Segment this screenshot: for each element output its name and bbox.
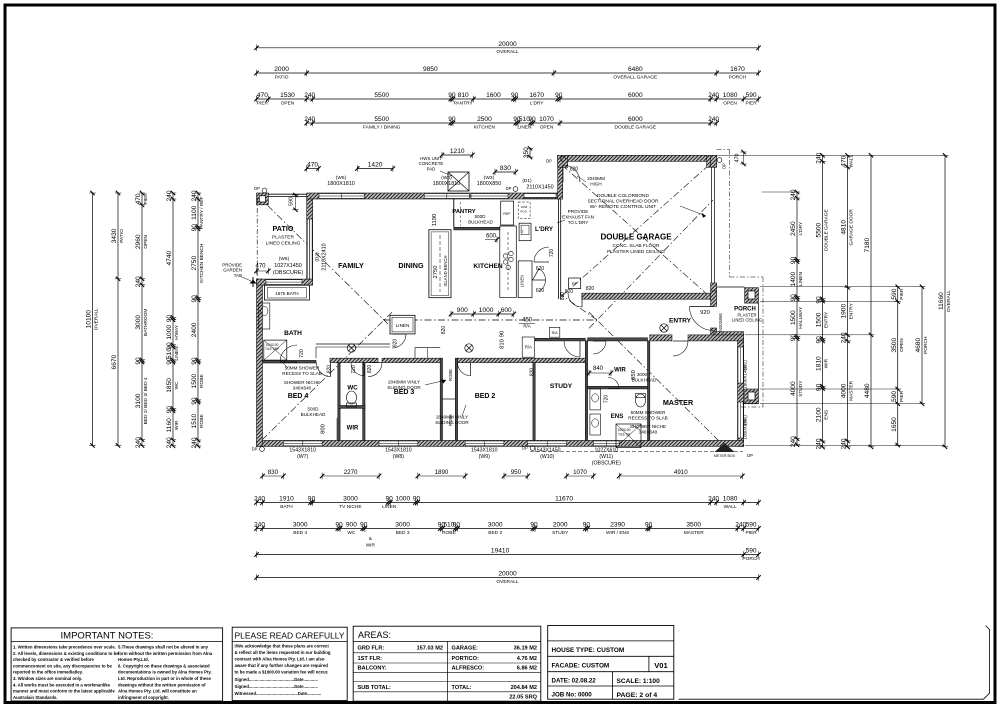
svg-text:KITCHEN: KITCHEN xyxy=(473,263,503,270)
svg-text:90: 90 xyxy=(191,295,198,303)
svg-text:ENTRY: ENTRY xyxy=(824,311,830,328)
svg-text:REF: REF xyxy=(503,212,511,216)
svg-text:BULKHEAD: BULKHEAD xyxy=(632,378,657,383)
svg-text:240: 240 xyxy=(166,190,173,201)
right dim porch piers xyxy=(897,287,899,445)
top dim chain pier/open detail xyxy=(257,98,759,100)
main top wall family-kitchen xyxy=(307,193,560,199)
patio top-left pier xyxy=(257,193,269,205)
top dim chain overall 20000 xyxy=(257,47,759,49)
svg-text:6000: 6000 xyxy=(628,92,643,99)
svg-text:1. Written dimensions take pre: 1. Written dimensions take precedence ov… xyxy=(13,645,116,650)
svg-text:ENTRY: ENTRY xyxy=(849,302,855,319)
svg-text:240: 240 xyxy=(135,276,142,287)
svg-text:3430: 3430 xyxy=(111,228,118,243)
left dim kitchen bench/robes xyxy=(197,193,199,446)
svg-text:WIR: WIR xyxy=(347,426,359,432)
svg-text:5.These drawings shall not be: 5.These drawings shall not be altered in… xyxy=(118,645,209,650)
porch bottom-right pier xyxy=(745,389,759,404)
svg-text:(W7): (W7) xyxy=(297,454,309,460)
svg-text:BED 2: BED 2 xyxy=(488,530,502,536)
svg-text:2000: 2000 xyxy=(274,66,289,73)
svg-text:(D2): (D2) xyxy=(315,252,321,262)
wir north wall xyxy=(588,338,648,341)
svg-text:1810: 1810 xyxy=(816,356,823,371)
svg-text:HALLWAY: HALLWAY xyxy=(798,306,804,329)
svg-text:830: 830 xyxy=(500,165,511,172)
svg-text:ISLAND BENCH: ISLAND BENCH xyxy=(443,256,448,287)
svg-text:BED 2/ BED 3/ BED 4: BED 2/ BED 3/ BED 4 xyxy=(143,377,149,424)
svg-text:90: 90 xyxy=(135,357,142,365)
svg-text:2750: 2750 xyxy=(433,266,439,279)
svg-text:R/A: R/A xyxy=(525,345,532,350)
laundry tub xyxy=(519,223,531,241)
ldry door arc xyxy=(534,247,549,262)
ra box hallway xyxy=(522,337,534,357)
svg-text:MASTER: MASTER xyxy=(663,398,694,407)
svg-text:90: 90 xyxy=(360,522,368,529)
hall closet east of linen xyxy=(415,347,440,349)
svg-text:ENS: ENS xyxy=(824,410,830,420)
svg-text:2110X1450: 2110X1450 xyxy=(526,185,553,191)
svg-text:DP: DP xyxy=(722,163,727,169)
bottom dim overall 20000 xyxy=(257,577,759,579)
svg-text:1543X1810: 1543X1810 xyxy=(471,448,498,454)
svg-text:EXHAUST FAN: EXHAUST FAN xyxy=(562,215,594,220)
svg-text:1ST FLR:: 1ST FLR: xyxy=(358,656,383,662)
svg-text:11660: 11660 xyxy=(938,292,945,310)
svg-text:BED 4: BED 4 xyxy=(293,530,307,536)
svg-text:FACADE: CUSTOM: FACADE: CUSTOM xyxy=(552,663,610,670)
svg-text:3000: 3000 xyxy=(343,496,358,503)
bath vanity xyxy=(259,303,270,329)
svg-text:PLASTER LINED CEILING: PLASTER LINED CEILING xyxy=(607,249,665,255)
svg-text:OPEN: OPEN xyxy=(540,124,554,130)
svg-text:ROBE: ROBE xyxy=(442,530,456,536)
svg-text:LINEN: LINEN xyxy=(798,272,804,287)
svg-text:1530: 1530 xyxy=(280,92,295,99)
window W4 xyxy=(424,194,469,199)
svg-text:PANTRY: PANTRY xyxy=(452,209,475,215)
svg-text:PAGE: 2 of 4: PAGE: 2 of 4 xyxy=(617,692,658,699)
svg-text:90: 90 xyxy=(453,522,461,529)
svg-text:90: 90 xyxy=(386,496,394,503)
svg-text:WALL: WALL xyxy=(849,154,855,167)
svg-text:3500: 3500 xyxy=(686,522,701,529)
entry door arc xyxy=(690,307,714,331)
stamp box bottom right xyxy=(679,626,990,700)
svg-text:820: 820 xyxy=(530,368,536,377)
svg-text:PORTICO:: PORTICO: xyxy=(452,656,479,662)
garage top wall xyxy=(558,155,717,161)
svg-text:documentations is owned by Aln: documentations is owned by Alna Homes Pt… xyxy=(118,670,212,675)
patio left dashed edge xyxy=(256,198,258,283)
left wall xyxy=(257,279,263,446)
svg-text:TAP: TAP xyxy=(234,273,242,278)
svg-text:Australain Standards.: Australain Standards. xyxy=(13,695,57,700)
svg-text:2960: 2960 xyxy=(135,234,142,249)
svg-text:DP: DP xyxy=(747,453,753,458)
svg-text:1800X850: 1800X850 xyxy=(477,181,502,187)
bath door arc xyxy=(280,345,297,362)
svg-text:2750: 2750 xyxy=(191,256,198,271)
svg-text:90: 90 xyxy=(166,315,173,323)
dim 470 patio line xyxy=(257,270,269,272)
svg-text:470: 470 xyxy=(135,193,142,204)
bottom wall xyxy=(257,440,744,446)
svg-text:90: 90 xyxy=(308,496,316,503)
master door arc xyxy=(673,341,688,356)
svg-text:2110X2410: 2110X2410 xyxy=(322,243,328,270)
svg-text:6000: 6000 xyxy=(628,116,643,123)
svg-text:METER BOX: METER BOX xyxy=(714,454,736,458)
bed2/study wall xyxy=(533,363,535,441)
left dim overall 10100 xyxy=(92,193,94,446)
garage right wall with sectional door xyxy=(711,155,717,167)
svg-text:Alna Homes Pty. Ltd. will cons: Alna Homes Pty. Ltd. will constitute an xyxy=(118,689,197,694)
wc east wall xyxy=(363,363,365,441)
svg-text:SUB TOTAL:: SUB TOTAL: xyxy=(358,685,391,691)
svg-text:240: 240 xyxy=(841,438,848,449)
robe divider xyxy=(443,398,456,400)
svg-text:240: 240 xyxy=(304,116,315,123)
top dim chain rooms xyxy=(307,122,717,124)
svg-text:LINEN: LINEN xyxy=(517,124,532,130)
svg-text:WC: WC xyxy=(174,381,180,390)
svg-text:4.76 M2: 4.76 M2 xyxy=(517,656,537,662)
window W1 master xyxy=(738,402,743,438)
svg-text:ENTRY: ENTRY xyxy=(669,318,692,325)
svg-text:500D: 500D xyxy=(308,407,320,412)
svg-text:L'DRY: L'DRY xyxy=(798,221,804,235)
svg-text:TO L'DRY: TO L'DRY xyxy=(568,220,589,225)
svg-text:90: 90 xyxy=(816,336,823,344)
svg-text:2400: 2400 xyxy=(191,322,198,337)
svg-text:5500: 5500 xyxy=(374,116,389,123)
svg-text:LINEN: LINEN xyxy=(382,504,397,510)
svg-text:ENS: ENS xyxy=(611,413,624,420)
extension line garage top to right dims xyxy=(717,154,945,156)
svg-text:830: 830 xyxy=(268,469,279,476)
window W5 xyxy=(319,194,364,199)
bath tub xyxy=(264,285,309,300)
svg-text:500D: 500D xyxy=(475,214,487,219)
svg-text:DP: DP xyxy=(506,186,512,191)
svg-text:720: 720 xyxy=(299,349,305,358)
svg-text:(OBSCURE): (OBSCURE) xyxy=(592,461,621,467)
svg-text:3000: 3000 xyxy=(637,372,648,377)
svg-text:36.19 M2: 36.19 M2 xyxy=(514,646,537,652)
svg-text:340X640: 340X640 xyxy=(639,430,658,435)
svg-text:JOB No: 0000: JOB No: 0000 xyxy=(552,692,593,699)
svg-text:820: 820 xyxy=(393,339,399,348)
family west wall xyxy=(307,199,313,279)
svg-text:800: 800 xyxy=(321,424,327,434)
bath south wall xyxy=(263,360,317,363)
hws pad xyxy=(448,172,469,191)
svg-text:OPEN: OPEN xyxy=(281,100,295,106)
svg-text:DP: DP xyxy=(522,446,528,451)
tv niche xyxy=(316,346,390,348)
svg-text:(W10): (W10) xyxy=(540,454,554,460)
svg-text:1800X850: 1800X850 xyxy=(743,418,748,439)
svg-text:6. Copyright on these drawings: 6. Copyright on these drawings & associa… xyxy=(118,663,210,668)
svg-text:810: 810 xyxy=(458,92,469,99)
svg-text:90: 90 xyxy=(166,406,173,414)
window W11 xyxy=(593,441,619,446)
svg-text:600: 600 xyxy=(486,234,497,240)
svg-text:LINED CEILING: LINED CEILING xyxy=(732,318,762,323)
svg-text:1543X1810: 1543X1810 xyxy=(289,448,316,454)
svg-text:R/A: R/A xyxy=(552,331,559,335)
door D2 opening in family west wall xyxy=(307,219,312,279)
extension 7180 break xyxy=(745,334,871,336)
svg-text:240: 240 xyxy=(708,92,719,99)
hallway north niche wall xyxy=(316,343,390,345)
extension line main top right xyxy=(762,191,797,193)
svg-text:590: 590 xyxy=(289,197,295,206)
svg-text:1510: 1510 xyxy=(191,413,198,428)
svg-text:1800X1450: 1800X1450 xyxy=(743,365,748,389)
beds north wall xyxy=(330,358,378,362)
east wall entry section xyxy=(711,291,717,306)
svg-text:V01: V01 xyxy=(654,661,668,670)
meter box xyxy=(715,443,735,452)
smoke detector hallway west xyxy=(347,344,355,352)
svg-text:19410: 19410 xyxy=(491,548,510,555)
svg-text:590: 590 xyxy=(746,92,757,99)
roof hip patio corner xyxy=(258,196,392,328)
svg-text:1000: 1000 xyxy=(479,307,494,314)
svg-text:checked by contractor & verifi: checked by contractor & verified before xyxy=(13,657,95,662)
cooktop xyxy=(503,254,507,258)
svg-text:PROVIDE: PROVIDE xyxy=(568,209,589,214)
svg-text:20000: 20000 xyxy=(498,41,517,48)
svg-text:470: 470 xyxy=(257,92,268,99)
areas box xyxy=(353,626,541,701)
svg-text:4680: 4680 xyxy=(915,338,922,353)
svg-text:90: 90 xyxy=(191,397,198,405)
wc door arc xyxy=(351,363,364,376)
svg-text:100X100: 100X100 xyxy=(618,428,631,432)
svg-text:90: 90 xyxy=(500,331,506,337)
right dim 7180/4480 xyxy=(870,155,872,447)
svg-text:Signed........................: Signed..................................… xyxy=(235,677,318,682)
svg-text:(OBSCURE): (OBSCURE) xyxy=(273,270,303,276)
window W9 xyxy=(465,441,504,446)
svg-text:WIR: WIR xyxy=(614,368,626,374)
svg-text:MASTER: MASTER xyxy=(849,380,855,401)
svg-text:240: 240 xyxy=(841,332,848,343)
svg-text:620: 620 xyxy=(536,288,545,294)
svg-text:POS.: POS. xyxy=(520,210,527,214)
important notes box xyxy=(11,628,223,701)
svg-text:PIER: PIER xyxy=(745,530,757,536)
svg-text:90: 90 xyxy=(790,294,797,302)
window W8 xyxy=(379,441,418,446)
svg-text:3100: 3100 xyxy=(135,393,142,408)
extension bottom right xyxy=(745,445,945,447)
svg-text:6670: 6670 xyxy=(111,354,118,369)
svg-text:reported to the office immedia: reported to the office immediatley. xyxy=(13,670,83,675)
svg-text:KITCHEN: KITCHEN xyxy=(474,124,496,130)
svg-text:240: 240 xyxy=(191,190,198,201)
svg-text:GARAGE:: GARAGE: xyxy=(452,646,479,652)
svg-text:WC: WC xyxy=(347,530,356,536)
svg-text:2270: 2270 xyxy=(344,469,358,476)
svg-text:DOUBLE GARAGE: DOUBLE GARAGE xyxy=(615,124,657,130)
svg-text:1070: 1070 xyxy=(573,469,587,476)
bottom dim chain rooms xyxy=(257,528,759,530)
window W7 xyxy=(283,441,322,446)
svg-text:90: 90 xyxy=(645,522,653,529)
svg-text:1600: 1600 xyxy=(486,92,501,99)
roof hip to top-right xyxy=(589,200,713,328)
svg-text:1543X1450: 1543X1450 xyxy=(534,448,561,454)
svg-text:2040MM: 2040MM xyxy=(587,176,605,181)
svg-text:(W9): (W9) xyxy=(479,454,491,460)
roof hip bottom-left xyxy=(262,312,392,440)
svg-text:W/- REMOTE CONTROL UNIT: W/- REMOTE CONTROL UNIT xyxy=(590,204,657,210)
svg-text:860: 860 xyxy=(560,292,566,301)
svg-text:240: 240 xyxy=(166,437,173,448)
svg-text:820: 820 xyxy=(367,365,373,374)
svg-text:PANTRY: PANTRY xyxy=(454,100,474,106)
svg-text:240: 240 xyxy=(708,496,719,503)
rf nook garage xyxy=(569,278,581,289)
svg-text:aware that if any further chan: aware that if any further changes are re… xyxy=(235,663,329,668)
right dim 4680 porch xyxy=(921,287,923,404)
svg-text:HOUSE TYPE: CUSTOM: HOUSE TYPE: CUSTOM xyxy=(552,647,625,654)
svg-text:90: 90 xyxy=(448,116,456,123)
svg-text:1675 BATH: 1675 BATH xyxy=(275,291,298,296)
svg-text:90: 90 xyxy=(448,92,456,99)
svg-text:90: 90 xyxy=(528,116,536,123)
svg-text:1500: 1500 xyxy=(191,373,198,388)
svg-text:RF: RF xyxy=(572,282,578,286)
svg-text:Witnessed.....................: Witnessed...............................… xyxy=(235,691,322,696)
svg-text:SHOWER NICHE: SHOWER NICHE xyxy=(630,424,666,429)
porch top-right pier xyxy=(745,288,759,303)
svg-text:90: 90 xyxy=(816,383,823,391)
svg-text:4810: 4810 xyxy=(841,220,848,235)
svg-text:GARAGE DOOR: GARAGE DOOR xyxy=(849,209,855,246)
svg-text:BULKHEAD: BULKHEAD xyxy=(301,412,326,417)
svg-text:SHOWER NICHE: SHOWER NICHE xyxy=(284,380,320,385)
svg-text:BATHROOM: BATHROOM xyxy=(143,309,149,336)
svg-text:1910: 1910 xyxy=(279,496,294,503)
svg-text:820: 820 xyxy=(570,167,579,173)
svg-text:2390: 2390 xyxy=(610,522,625,529)
smoke detector hallway mid xyxy=(465,344,473,352)
wc toilet xyxy=(347,391,357,404)
garage west wall upper xyxy=(558,155,563,199)
svg-text:157.03 M2: 157.03 M2 xyxy=(417,646,443,652)
svg-text:1670: 1670 xyxy=(730,66,745,73)
bath shower xyxy=(264,340,287,360)
svg-text:470: 470 xyxy=(307,162,318,169)
svg-text:& reflect all the items reques: & reflect all the items requested in our… xyxy=(235,650,331,655)
svg-text:SECTIONAL OVERHEAD DOOR: SECTIONAL OVERHEAD DOOR xyxy=(588,199,660,205)
svg-text:90: 90 xyxy=(790,257,797,265)
svg-text:FAMILY: FAMILY xyxy=(338,261,364,270)
roof ridge xyxy=(384,319,597,321)
svg-text:6480: 6480 xyxy=(628,66,643,73)
svg-text:CONC. SLAB FLOOR: CONC. SLAB FLOOR xyxy=(613,243,660,249)
top dim chain 2000/9850/6480/1670 xyxy=(257,72,759,74)
svg-text:1210: 1210 xyxy=(450,148,465,155)
svg-text:1160: 1160 xyxy=(166,418,173,433)
svg-text:90: 90 xyxy=(816,296,823,304)
svg-text:600: 600 xyxy=(501,307,512,314)
svg-text:WIR / ENS: WIR / ENS xyxy=(606,530,629,536)
svg-text:drawings without the written p: drawings without the written permission … xyxy=(118,682,206,687)
svg-text:240: 240 xyxy=(816,152,823,163)
svg-text:1650: 1650 xyxy=(891,417,898,432)
svg-text:1900: 1900 xyxy=(841,304,848,319)
svg-text:4. All works must be executed: 4. All works must be executed in a workm… xyxy=(13,682,111,687)
porch south wall / master north-east corner wall xyxy=(714,332,744,338)
extension porch pier2 xyxy=(760,388,898,390)
svg-text:720: 720 xyxy=(351,365,357,374)
ens door arc xyxy=(608,378,619,389)
svg-text:1400: 1400 xyxy=(790,271,797,286)
porch eave dashed xyxy=(730,276,764,278)
wir-ens/master wall xyxy=(648,341,650,441)
svg-text:PORCH: PORCH xyxy=(729,74,747,80)
svg-text:3000: 3000 xyxy=(395,522,410,529)
svg-text:90: 90 xyxy=(511,92,519,99)
patio south wall with window W6 xyxy=(257,279,313,285)
svg-text:1027X1450: 1027X1450 xyxy=(274,263,302,269)
svg-text:WALL: WALL xyxy=(724,504,737,510)
svg-text:11670: 11670 xyxy=(555,496,573,503)
svg-text:90: 90 xyxy=(413,496,421,503)
svg-text:1890: 1890 xyxy=(435,469,449,476)
svg-text:90: 90 xyxy=(583,522,591,529)
svg-text:WIR: WIR xyxy=(824,358,830,368)
svg-text:510: 510 xyxy=(166,348,173,359)
svg-text:900: 900 xyxy=(457,307,468,314)
svg-text:TILE SHF: TILE SHF xyxy=(265,347,279,351)
pantry walls xyxy=(453,199,455,227)
master east wall xyxy=(738,337,744,446)
smoke detector entry xyxy=(660,324,668,332)
svg-text:2000: 2000 xyxy=(553,522,568,529)
svg-text:1100: 1100 xyxy=(191,205,198,220)
linen closet hallway xyxy=(390,315,415,334)
svg-text:STUDY: STUDY xyxy=(798,380,804,397)
svg-text:5500: 5500 xyxy=(374,92,389,99)
svg-text:R/A: R/A xyxy=(523,324,530,329)
svg-text:3000: 3000 xyxy=(293,522,308,529)
svg-text:240: 240 xyxy=(304,92,315,99)
dim 900-1000-600 benches xyxy=(451,313,514,315)
svg-text:90: 90 xyxy=(166,357,173,365)
svg-text:DOUBLE GARAGE: DOUBLE GARAGE xyxy=(824,209,830,251)
svg-text:BULKHEAD: BULKHEAD xyxy=(468,220,493,225)
svg-text:WIR: WIR xyxy=(174,420,180,430)
svg-text:I/We acknowledge that these pl: I/We acknowledge that these plans are co… xyxy=(235,644,330,649)
svg-text:90: 90 xyxy=(191,224,198,232)
svg-text:820: 820 xyxy=(565,289,574,295)
bed4 door arc xyxy=(317,363,331,377)
svg-text:DOUBLE COLORBOND: DOUBLE COLORBOND xyxy=(597,193,650,199)
svg-text:STUDY: STUDY xyxy=(550,383,573,390)
svg-text:OPEN: OPEN xyxy=(143,234,149,248)
extension porch pier1 xyxy=(760,301,898,303)
svg-text:ROBE: ROBE xyxy=(199,414,205,428)
